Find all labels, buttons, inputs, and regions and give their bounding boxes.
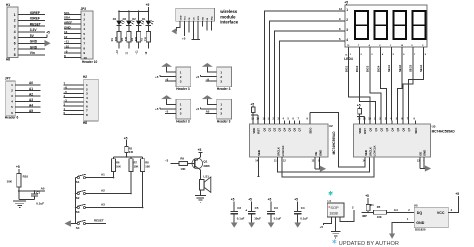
U2 SRCLK wire to U3 xyxy=(274,157,370,172)
svg-text:10K: 10K xyxy=(180,167,185,171)
svg-text:7: 7 xyxy=(14,47,16,51)
ground arrow at wireless module xyxy=(172,28,177,34)
svg-text:+5: +5 xyxy=(365,194,369,198)
svg-text:DIG1: DIG1 xyxy=(344,65,348,72)
ground arrow at U5 xyxy=(389,234,395,239)
svg-text:S1: S1 xyxy=(76,180,80,184)
svg-text:1: 1 xyxy=(346,8,348,12)
svg-text:6: 6 xyxy=(14,42,16,46)
svg-text:1838: 1838 xyxy=(329,210,338,215)
+5 at pull-up group xyxy=(124,136,128,146)
wire display pin 5 to U3 Q4 xyxy=(387,47,395,121)
svg-text:1: 1 xyxy=(11,83,13,87)
svg-text:GND: GND xyxy=(416,221,424,225)
svg-text:Q3: Q3 xyxy=(385,127,389,131)
ground arrow below C4 xyxy=(295,223,301,228)
svg-text:3: 3 xyxy=(220,79,222,83)
ground arrow above Header 3 xyxy=(202,63,212,67)
svg-text:DIG4: DIG4 xyxy=(376,65,380,72)
LED D1 xyxy=(142,10,154,25)
svg-text:Header 3: Header 3 xyxy=(217,87,231,91)
svg-text:6: 6 xyxy=(83,37,85,41)
svg-text:SER: SER xyxy=(257,150,261,156)
wire R10 to node A0 xyxy=(18,187,45,200)
svg-text:A0: A0 xyxy=(41,187,45,191)
svg-text:2: 2 xyxy=(220,75,222,79)
svg-text:SEG3: SEG3 xyxy=(409,64,413,72)
svg-text:VDD: VDD xyxy=(252,128,256,134)
svg-text:~13: ~13 xyxy=(116,50,119,55)
svg-text:Q0: Q0 xyxy=(368,127,372,131)
wire display pin 7 to U3 Q6 xyxy=(403,47,416,121)
svg-text:RST: RST xyxy=(257,128,261,134)
svg-text:H1: H1 xyxy=(6,3,10,7)
svg-text:DIG2: DIG2 xyxy=(355,65,359,72)
svg-text:Header 3: Header 3 xyxy=(176,120,190,124)
U3 internal bottom labels xyxy=(364,145,427,156)
svg-text:R8: R8 xyxy=(145,160,149,164)
ground arrow above Header 3 xyxy=(162,63,172,67)
svg-text:RESET: RESET xyxy=(94,219,104,223)
svg-text:1: 1 xyxy=(220,103,222,107)
net label ~13 below R1 xyxy=(116,42,119,55)
digit 1 of LED4 xyxy=(354,11,369,39)
svg-text:2: 2 xyxy=(83,18,85,22)
wire pin2 to +5 xyxy=(155,107,176,111)
svg-text:10uF: 10uF xyxy=(254,216,261,220)
wire U5 VCC to +5 xyxy=(448,192,459,213)
svg-text:+5: +5 xyxy=(155,107,159,111)
svg-text:A4: A4 xyxy=(29,103,33,107)
ground arrow above Header 3 xyxy=(162,95,172,99)
U2 LCHCLK wire to U3 xyxy=(282,157,374,177)
wire pin2 to +5 xyxy=(196,75,217,79)
svg-text:~9: ~9 xyxy=(64,49,68,53)
svg-text:JP7: JP7 xyxy=(5,77,11,81)
svg-text:LCHCLK: LCHCLK xyxy=(373,145,377,156)
svg-text:R9: R9 xyxy=(180,157,184,161)
capacitor C1 0.1uF xyxy=(19,190,44,205)
+5 at display xyxy=(344,0,348,5)
connector JP7 (Header 6) xyxy=(5,77,41,120)
svg-text:240: 240 xyxy=(129,150,134,154)
wire wireless pin8 stub xyxy=(210,21,212,30)
svg-text:~9: ~9 xyxy=(206,77,210,81)
wire U4 pin2 to ground xyxy=(335,217,337,232)
svg-text:+5: +5 xyxy=(182,37,186,41)
digit 3 of LED4 xyxy=(392,11,407,39)
svg-text:Q4: Q4 xyxy=(390,127,394,131)
svg-text:220: 220 xyxy=(125,36,128,41)
resistor R3 220 xyxy=(141,25,151,42)
LED D4 xyxy=(113,10,125,25)
svg-text:IMP: IMP xyxy=(362,214,367,218)
svg-text:A3: A3 xyxy=(101,202,105,206)
wire S3 to A3 xyxy=(86,202,143,207)
net label ~3 xyxy=(165,158,179,163)
svg-text:+5: +5 xyxy=(124,136,128,140)
svg-text:A5: A5 xyxy=(29,109,33,113)
svg-text:R2: R2 xyxy=(129,146,133,150)
wire wireless pin1 to ground arrow xyxy=(177,21,181,31)
svg-text:U3: U3 xyxy=(432,124,436,128)
IC U2 MC74HC595AD body xyxy=(250,124,337,157)
U3 pin Q5 xyxy=(396,118,400,132)
svg-text:CE: CE xyxy=(189,17,191,21)
svg-text:RST: RST xyxy=(363,128,367,134)
svg-text:SRCLK: SRCLK xyxy=(368,147,372,156)
U2 pin Q1 xyxy=(268,118,272,132)
svg-text:220: 220 xyxy=(135,36,138,41)
svg-text:R7: R7 xyxy=(134,160,138,164)
U3 top pins VDD RST xyxy=(358,118,367,134)
U3 pin Q4 xyxy=(390,118,394,132)
U2 SER pin wire xyxy=(255,157,260,177)
svg-text:U4: U4 xyxy=(327,199,331,203)
net label 11 below R4 xyxy=(126,42,129,55)
label LED4 xyxy=(344,54,353,61)
svg-text:H2: H2 xyxy=(83,75,87,79)
wire display pin 6 to U3 Q5 xyxy=(398,47,406,121)
speaker LS1 xyxy=(199,177,210,192)
svg-text:MO: MO xyxy=(203,17,205,21)
svg-text:GND: GND xyxy=(318,150,322,156)
svg-text:10K: 10K xyxy=(377,215,382,219)
svg-text:+5: +5 xyxy=(294,198,298,202)
svg-text:12: 12 xyxy=(64,35,68,39)
svg-text:Q2: Q2 xyxy=(273,127,277,131)
U2 pin Q2 xyxy=(273,118,277,132)
svg-text:10K: 10K xyxy=(134,164,139,168)
svg-text:0.1uF: 0.1uF xyxy=(36,201,44,205)
resistor R1 220 xyxy=(111,25,121,42)
wire display digit pin to U2 Q2 xyxy=(274,27,345,120)
ground arrow below C2 xyxy=(231,223,237,228)
resistor R9 10K xyxy=(179,157,188,172)
svg-text:0.1uF: 0.1uF xyxy=(300,216,308,220)
svg-text:8: 8 xyxy=(83,46,85,50)
+5 at R10 xyxy=(16,165,20,173)
svg-text:MI: MI xyxy=(207,18,209,21)
wire R5 to U5 DQ with A4 label xyxy=(387,208,415,212)
svg-text:DS1820: DS1820 xyxy=(415,228,426,232)
wire display pin 1 to U3 Q0 xyxy=(344,47,370,121)
svg-text:SCL: SCL xyxy=(64,11,70,15)
wire R2 to pull-up bus xyxy=(114,153,143,158)
wire Q1 collector to LS1 xyxy=(200,170,209,180)
svg-text:0.1uF: 0.1uF xyxy=(237,216,245,220)
svg-text:C3: C3 xyxy=(274,206,278,210)
svg-text:3: 3 xyxy=(346,28,348,32)
U3 pin Q2 xyxy=(379,118,383,132)
connector Header 3 (top-left) xyxy=(176,67,191,91)
U2 OE GND wires xyxy=(312,157,321,169)
U2 SDO wire to U3 SER xyxy=(310,113,365,168)
svg-text:+5: +5 xyxy=(231,198,235,202)
svg-text:220: 220 xyxy=(145,36,148,41)
ground arrow at U2 xyxy=(320,166,326,172)
wire display digit pin to U2 Q3 xyxy=(279,37,345,121)
capacitor C4 0.1uF xyxy=(294,198,308,223)
svg-text:D4: D4 xyxy=(113,17,117,21)
wire display pin 3 to U3 Q2 xyxy=(366,47,381,121)
U2 pin Q5 xyxy=(288,118,292,132)
U2 pin Q0 xyxy=(263,118,267,132)
svg-text:4: 4 xyxy=(346,38,348,42)
svg-text:JP2: JP2 xyxy=(81,7,87,11)
svg-text:+: + xyxy=(245,208,247,212)
U3 pin Q1 xyxy=(374,118,378,132)
svg-text:Q6: Q6 xyxy=(293,127,297,131)
svg-text:+5: +5 xyxy=(196,107,200,111)
resistor R2 220 xyxy=(131,25,141,42)
pull-up resistor R4 10K at U3 xyxy=(357,104,365,121)
svg-text:R1: R1 xyxy=(370,203,374,207)
svg-text:+5: +5 xyxy=(46,31,50,35)
svg-text:D3: D3 xyxy=(123,17,127,21)
svg-text:Q2: Q2 xyxy=(379,127,383,131)
svg-text:3: 3 xyxy=(83,22,85,26)
U2 pin SDO xyxy=(307,113,313,134)
svg-text:2: 2 xyxy=(346,18,348,22)
svg-text:IOREF: IOREF xyxy=(30,11,40,15)
svg-text:8: 8 xyxy=(14,53,16,57)
svg-text:2: 2 xyxy=(14,19,16,23)
svg-text:13: 13 xyxy=(64,30,68,34)
temperature sensor U5 DS18B20 xyxy=(414,203,448,231)
svg-text:DIG3: DIG3 xyxy=(366,65,370,72)
svg-text:4: 4 xyxy=(11,100,13,104)
svg-text:A1: A1 xyxy=(101,172,105,176)
svg-text:Q7: Q7 xyxy=(298,127,302,131)
svg-text:A2: A2 xyxy=(29,92,33,96)
svg-text:5: 5 xyxy=(11,105,13,109)
+5 net at H1 pin 5 xyxy=(45,31,50,38)
svg-text:SEG4: SEG4 xyxy=(419,64,423,72)
wire wireless pin7 stub xyxy=(206,21,208,30)
svg-text:5: 5 xyxy=(14,36,16,40)
U2 internal bottom labels xyxy=(257,145,322,156)
svg-text:SRCLK: SRCLK xyxy=(276,147,280,156)
svg-text:VCC: VCC xyxy=(185,15,187,20)
svg-text:S3: S3 xyxy=(76,210,80,214)
wire pin1 to ground arrow xyxy=(207,66,216,72)
svg-text:Q5: Q5 xyxy=(288,127,292,131)
svg-text:SOP: SOP xyxy=(330,205,339,210)
svg-text:D1: D1 xyxy=(142,17,146,21)
resistor R7 10K xyxy=(129,157,139,194)
svg-text:A0: A0 xyxy=(29,81,33,85)
wire display pin 8 to U3 Q7 xyxy=(409,47,427,121)
svg-text:A5: A5 xyxy=(206,110,210,114)
svg-text:Header 10: Header 10 xyxy=(82,60,97,64)
wire pin3 net xyxy=(165,77,176,81)
svg-text:AREF: AREF xyxy=(64,21,72,25)
power arrow at H1 GND xyxy=(45,40,51,46)
svg-text:9: 9 xyxy=(83,51,85,55)
U2 pin Q6 xyxy=(293,118,297,132)
connector Header 3 (bottom-left) xyxy=(176,99,191,123)
svg-text:SDO: SDO xyxy=(414,127,418,134)
U2 pin Q3 xyxy=(278,118,282,132)
U3 OE GND wires xyxy=(420,157,425,169)
U3 pin Q7 xyxy=(407,118,411,132)
transistor Q1 3906 xyxy=(192,157,210,170)
svg-text:3906: 3906 xyxy=(203,164,210,168)
ground arrow below C3 xyxy=(268,223,274,228)
svg-text:1: 1 xyxy=(180,103,182,107)
capacitor C3 0.1uF xyxy=(267,198,281,223)
svg-text:10: 10 xyxy=(83,56,87,60)
svg-text:4: 4 xyxy=(83,27,85,31)
svg-text:Header 3: Header 3 xyxy=(176,87,190,91)
display left pin numbers xyxy=(346,8,348,42)
LED D2 xyxy=(132,10,144,25)
svg-text:Q3: Q3 xyxy=(278,127,282,131)
net label 10 below R3 xyxy=(145,42,148,55)
resistor R8 10K xyxy=(141,157,151,208)
svg-text:~10: ~10 xyxy=(64,45,69,49)
wire U4 pin1 to +5 xyxy=(320,217,332,229)
resistor R6 10K xyxy=(111,157,121,179)
digit 4 of LED4 xyxy=(412,11,427,39)
svg-text:A3: A3 xyxy=(29,98,33,102)
svg-text:7: 7 xyxy=(83,42,85,46)
wire pin3 net xyxy=(206,77,217,81)
wire wireless pin6 stub xyxy=(201,21,203,26)
svg-text:LCHCLK: LCHCLK xyxy=(281,145,285,156)
svg-text:S2: S2 xyxy=(76,196,80,200)
U3 pin Q3 xyxy=(385,118,389,132)
ground arrow at U3 xyxy=(425,166,431,172)
svg-text:IOREF: IOREF xyxy=(30,17,40,21)
svg-text:~11: ~11 xyxy=(135,50,138,55)
wireless module connector J1 xyxy=(176,8,215,21)
svg-text:Header 6: Header 6 xyxy=(5,115,19,119)
svg-text:C1: C1 xyxy=(36,190,40,194)
wire pin1 to ground arrow xyxy=(167,99,176,105)
svg-text:R10: R10 xyxy=(23,174,29,178)
wire pin3 net xyxy=(206,110,217,114)
ground at R10 divider xyxy=(13,201,26,208)
svg-text:1: 1 xyxy=(14,13,16,17)
svg-text:Q6: Q6 xyxy=(401,127,405,131)
svg-text:1: 1 xyxy=(83,13,85,17)
svg-text:SER: SER xyxy=(364,150,368,156)
wire U4 pin3 output xyxy=(340,205,354,221)
svg-text:~11: ~11 xyxy=(64,40,69,44)
U3 bottom pin numbers xyxy=(363,159,426,162)
wire pin2 to +5 xyxy=(196,107,217,111)
wire U5 GND to ground xyxy=(392,217,414,234)
svg-text:MC74HC595AD: MC74HC595AD xyxy=(332,131,336,155)
U3 pin Q6 xyxy=(401,118,405,132)
wire S4 to RESET xyxy=(86,219,107,224)
display LED4 body xyxy=(345,5,427,47)
svg-text:MC74HC595AD: MC74HC595AD xyxy=(432,129,456,133)
svg-text:1: 1 xyxy=(220,70,222,74)
svg-text:DQ: DQ xyxy=(417,211,423,215)
svg-text:10K: 10K xyxy=(116,164,121,168)
U2 pin Q4 xyxy=(283,118,287,132)
svg-text:SDA: SDA xyxy=(64,16,71,20)
svg-text:Q0: Q0 xyxy=(263,127,267,131)
svg-text:+5: +5 xyxy=(16,165,20,169)
svg-text:U5: U5 xyxy=(414,203,418,207)
svg-text:+5: +5 xyxy=(146,3,150,7)
switch S3 xyxy=(75,204,86,214)
svg-text:H8: H8 xyxy=(83,121,87,125)
U3 pin Q0 xyxy=(368,118,372,132)
svg-text:3.3V: 3.3V xyxy=(30,28,38,32)
svg-text:+5: +5 xyxy=(268,198,272,202)
svg-text:~6: ~6 xyxy=(165,77,169,81)
wire wireless pin2 to +5 xyxy=(182,21,186,40)
svg-text:H8: H8 xyxy=(6,58,10,62)
svg-text:A2: A2 xyxy=(101,188,105,192)
wire S2 to A2 xyxy=(86,188,132,193)
IC U3 MC74HC595AD body xyxy=(354,124,456,157)
svg-text:UPDATED BY AUTHOR: UPDATED BY AUTHOR xyxy=(339,241,399,247)
svg-text:Q5: Q5 xyxy=(396,127,400,131)
switch S4 xyxy=(76,220,86,230)
svg-text:+5: +5 xyxy=(196,75,200,79)
svg-text:RESET: RESET xyxy=(30,22,41,26)
IR receiver U4 TSOP1838 xyxy=(327,199,344,217)
wire pin2 to +5 xyxy=(155,75,176,79)
resistor R2 240 xyxy=(125,146,134,154)
U2 top pins VDD RST xyxy=(251,118,260,134)
label UPDATED BY AUTHOR xyxy=(339,241,399,247)
connector H2 (Header 8) xyxy=(64,75,99,125)
switch S1 xyxy=(76,174,86,184)
capacitor C2 0.1uF xyxy=(230,198,244,223)
svg-text:Q4: Q4 xyxy=(283,127,287,131)
svg-text:C2: C2 xyxy=(237,206,241,210)
wire display digit pin to U2 Q1 xyxy=(269,17,345,120)
svg-text:R5: R5 xyxy=(377,205,381,209)
wire display pin 2 to U3 Q1 xyxy=(355,47,376,121)
svg-text:~3: ~3 xyxy=(165,158,169,162)
svg-text:3: 3 xyxy=(220,112,222,116)
svg-text:+5: +5 xyxy=(320,225,324,229)
resistor R10 10K xyxy=(7,174,29,188)
U2 pin Q7 xyxy=(298,118,302,132)
ground at LS1 xyxy=(195,190,206,202)
wire S1 to A1 xyxy=(86,172,114,177)
svg-text:VDD: VDD xyxy=(358,128,362,134)
svg-text:2: 2 xyxy=(180,75,182,79)
svg-text:R6: R6 xyxy=(116,160,120,164)
svg-text:GND: GND xyxy=(423,150,427,156)
marker asterisk at U4 xyxy=(329,191,333,195)
LED D3 xyxy=(123,10,135,25)
connector H1 (power header) xyxy=(6,3,45,62)
switch bus wire xyxy=(75,178,77,224)
marker asterisk at footer xyxy=(333,239,337,243)
svg-text:Q1: Q1 xyxy=(268,127,272,131)
display bottom pin numbers xyxy=(347,44,424,47)
svg-text:3: 3 xyxy=(180,112,182,116)
svg-text:GND: GND xyxy=(30,40,38,44)
svg-text:S4: S4 xyxy=(76,226,80,230)
svg-text:+5: +5 xyxy=(357,104,361,108)
svg-text:GND: GND xyxy=(64,25,72,29)
svg-text:CS: CS xyxy=(194,17,196,21)
svg-text:2: 2 xyxy=(11,89,13,93)
wire R1 to DQ line xyxy=(362,211,374,213)
svg-text:SDO: SDO xyxy=(309,127,313,134)
